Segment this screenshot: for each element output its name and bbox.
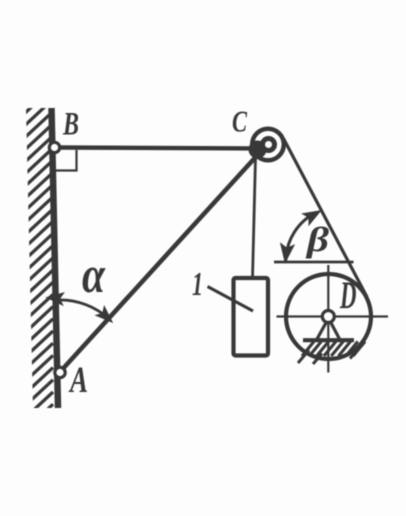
- svg-text:α: α: [82, 247, 106, 304]
- pin B: [49, 142, 59, 152]
- wheel crosshair: [277, 315, 389, 317]
- pulley C hub: [263, 139, 275, 151]
- ground hatching: [298, 342, 365, 365]
- bar BC: [55, 148, 261, 149]
- rope to weight: [253, 157, 256, 279]
- pulley joint blob: [249, 141, 267, 159]
- rope CD: [284, 139, 368, 298]
- wheel pin support triangle: [317, 321, 340, 339]
- weight 1: [234, 278, 269, 356]
- svg-text:β: β: [305, 220, 330, 259]
- svg-text:B: B: [62, 107, 79, 143]
- wheel pin: [322, 311, 334, 323]
- support base bar: [303, 338, 354, 342]
- svg-text:D: D: [339, 274, 356, 317]
- bar AC: [59, 149, 263, 373]
- angle alpha arc: [58, 300, 110, 320]
- wall hatching: [24, 87, 53, 431]
- leader line to weight: [208, 287, 254, 312]
- right-angle mark at B: [56, 150, 77, 171]
- wheel D rim: [286, 274, 371, 359]
- pin A: [55, 367, 65, 377]
- svg-text:A: A: [69, 360, 88, 401]
- angle beta arc: [286, 213, 316, 261]
- pulley C outer: [252, 129, 284, 161]
- svg-text:C: C: [232, 104, 247, 139]
- wall: [52, 108, 59, 408]
- svg-text:1: 1: [192, 266, 203, 303]
- beta reference line: [274, 261, 354, 264]
